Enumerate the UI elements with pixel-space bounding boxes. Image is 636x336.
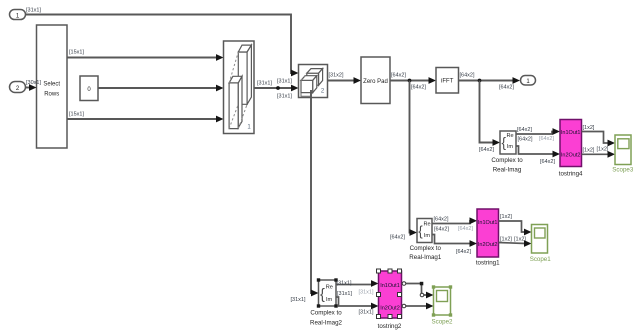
svg-text:[64x2]: [64x2]	[390, 235, 405, 241]
svg-text:[1x2]: [1x2]	[583, 148, 595, 154]
svg-text:[31x1]: [31x1]	[277, 94, 292, 100]
svg-text:{: {	[320, 287, 325, 303]
scope Scope2 (selected)	[432, 285, 454, 325]
wire W4: Constant to Matrix Concatenate1 input 2	[98, 85, 224, 92]
svg-text:[1x2]: [1x2]	[583, 125, 595, 131]
dashed connector of concatenate2 icon	[301, 73, 307, 80]
svg-text:[64x2]: [64x2]	[479, 147, 494, 153]
svg-text:tostring4: tostring4	[559, 170, 583, 177]
wire W9: Zero Pad out to iFFT	[390, 77, 436, 84]
svg-text:In2Out2: In2Out2	[561, 153, 581, 159]
svg-text:[1x2]: [1x2]	[597, 147, 609, 153]
scope Scope1	[530, 225, 552, 264]
endpoint circle at tostring2 Out1	[402, 282, 406, 286]
arrowhead into Matrix Concatenate2 pin 1	[291, 70, 299, 77]
svg-text:[31x1]: [31x1]	[26, 8, 41, 14]
svg-text:In1Out1: In1Out1	[561, 130, 581, 136]
wire W23: tostring2 Out1 to Scope2 in1 (selected)	[402, 282, 434, 299]
block Constant 0	[80, 76, 98, 101]
svg-text:Complex to: Complex to	[410, 245, 442, 252]
svg-text:[64x2]: [64x2]	[518, 137, 533, 143]
svg-text:[30x1]: [30x1]	[26, 80, 41, 86]
svg-text:Scope2: Scope2	[432, 319, 454, 326]
wire W14: Im out to tostring4 In2	[516, 146, 560, 157]
svg-text:Re: Re	[424, 222, 431, 228]
svg-text:[64x2]: [64x2]	[411, 85, 426, 91]
svg-text:Im: Im	[507, 144, 514, 150]
block iFFT	[436, 68, 459, 94]
svg-text:[1x2]: [1x2]	[500, 214, 512, 220]
wire W12: branch down to Complex to Real-Imag	[480, 81, 501, 146]
wire W3: Select Rows out1 to Matrix Concatenate1 input 1	[67, 54, 224, 61]
block Zero Pad	[361, 57, 390, 104]
selection handles of Scope2	[432, 285, 435, 288]
svg-text:[31x1]: [31x1]	[291, 297, 306, 303]
svg-text:Real-Imag: Real-Imag	[493, 166, 522, 173]
svg-text:Real-Imag2: Real-Imag2	[310, 319, 343, 326]
svg-text:[31x1]: [31x1]	[337, 280, 352, 286]
svg-text:Im: Im	[326, 297, 333, 303]
svg-text:Real-Imag1: Real-Imag1	[409, 254, 442, 261]
block tostring2 (selected)	[377, 269, 402, 330]
wire W10: branch down to Complex to Real-Imag1	[410, 81, 418, 236]
svg-text:[31x1]: [31x1]	[337, 291, 352, 297]
outport 1	[521, 76, 536, 86]
selection handles of tostring2	[377, 269, 381, 273]
wire W5: Select Rows out2 to Matrix Concatenate1 input 3	[67, 116, 224, 123]
block Complex to Real-Imag2 (selected)	[310, 278, 343, 326]
wire W22: Im out to tostring2 In2	[336, 297, 379, 309]
svg-text:[15x1]: [15x1]	[69, 50, 84, 56]
svg-text:[64x2]: [64x2]	[540, 159, 555, 165]
back cube of concatenate2 icon	[307, 73, 319, 85]
front slab of concatenate1 icon	[229, 83, 238, 129]
wire W15: tostring4 Out1 to Scope3 in1	[582, 132, 616, 147]
svg-text:[64x2]: [64x2]	[517, 127, 532, 133]
wire W19: tostring1 Out1 to Scope1 in1	[499, 221, 532, 235]
svg-text:Complex to: Complex to	[310, 309, 342, 316]
svg-text:tostring2: tostring2	[378, 323, 402, 330]
wire W21: Re out to tostring2 In1	[336, 280, 379, 287]
svg-text:Im: Im	[424, 233, 431, 239]
corner handle on wire W23	[420, 282, 424, 286]
scope Scope3	[612, 135, 634, 174]
dashed connectors of concatenate1 icon	[229, 52, 238, 83]
wire W13: Re out to tostring4 In1	[516, 128, 560, 135]
svg-text:In2Out2: In2Out2	[478, 242, 498, 248]
svg-text:[64x2]: [64x2]	[539, 136, 554, 142]
svg-text:In1Out1: In1Out1	[380, 283, 400, 289]
svg-text:[31x2]: [31x2]	[329, 73, 344, 79]
wire W6: Matrix Concatenate1 out to Matrix Concatenate2 input 2	[254, 85, 299, 92]
selection handles of Complex to Real-Imag2	[317, 278, 320, 281]
front cube of concatenate2 icon	[301, 80, 313, 92]
svg-text:Scope3: Scope3	[612, 167, 634, 174]
block Matrix Concatenate2 (two cubes icon)	[299, 65, 328, 98]
wire W18: Im out to tostring1 In2	[432, 235, 477, 247]
back slab of concatenate1 icon	[238, 52, 247, 104]
svg-text:[64x2]: [64x2]	[499, 85, 514, 91]
inport 2	[10, 82, 26, 93]
junction on wire W9	[408, 79, 412, 83]
wire W16: tostring4 Out2 to Scope3 in2	[582, 151, 616, 158]
svg-text:Scope1: Scope1	[530, 256, 552, 263]
svg-text:In2Out2: In2Out2	[380, 306, 400, 312]
svg-text:Re: Re	[326, 285, 333, 291]
block Complex to Real-Imag	[491, 131, 523, 173]
junction on wire W11	[478, 79, 482, 83]
svg-text:[1x2]: [1x2]	[500, 237, 512, 243]
junction on wire W6	[276, 86, 280, 90]
block tostring1	[476, 209, 500, 266]
svg-text:Rows: Rows	[44, 92, 59, 98]
svg-text:Zero Pad: Zero Pad	[363, 79, 388, 85]
svg-text:[15x1]: [15x1]	[69, 112, 84, 118]
wire W17: Re out to tostring1 In1	[432, 217, 477, 224]
svg-text:[64x2]: [64x2]	[460, 73, 475, 79]
svg-text:[64x2]: [64x2]	[434, 217, 449, 223]
svg-text:Complex to: Complex to	[491, 157, 523, 164]
arrowhead into Select Rows	[29, 84, 37, 91]
block Complex to Real-Imag1	[409, 219, 442, 261]
svg-text:[64x2]: [64x2]	[458, 226, 473, 232]
wire W20: tostring1 Out2 to Scope1 in2	[499, 240, 532, 247]
wire W7: branch down to Complex to Real-Imag2	[311, 90, 319, 296]
svg-text:[31x1]: [31x1]	[277, 79, 292, 85]
inport 1	[10, 10, 26, 20]
svg-text:[64x2]: [64x2]	[434, 227, 449, 233]
wire W8: Matrix Concatenate2 out to Zero Pad	[328, 77, 362, 84]
wire W1: In1 to Matrix Concatenate2 input 1	[25, 15, 299, 77]
base outline under front cube	[301, 93, 311, 97]
svg-text:[64x2]: [64x2]	[456, 249, 471, 255]
svg-text:[31x1]: [31x1]	[359, 310, 374, 316]
wire W11: iFFT out to Out1	[459, 77, 521, 84]
svg-text:[31x1]: [31x1]	[257, 81, 272, 87]
svg-text:[64x2]: [64x2]	[391, 73, 406, 79]
block Matrix Concatenate1 (tall 3D slabs icon)	[224, 41, 255, 134]
endpoint circle near Scope2 in1	[420, 293, 424, 297]
svg-text:[31x1]: [31x1]	[359, 290, 374, 296]
svg-text:tostring1: tostring1	[476, 259, 500, 266]
svg-text:Re: Re	[507, 133, 514, 139]
svg-text:Select: Select	[43, 82, 60, 88]
svg-text:In1Out1: In1Out1	[478, 220, 498, 226]
endpoint circle at tostring2 Out2	[402, 304, 406, 308]
wire W2: In2 to Select Rows	[25, 84, 37, 91]
block Select Rows	[37, 25, 68, 148]
block tostring4	[559, 120, 583, 178]
wire W24: tostring2 Out2 to Scope2 in2 (selected)	[402, 303, 434, 310]
svg-text:iFFT: iFFT	[441, 79, 454, 85]
